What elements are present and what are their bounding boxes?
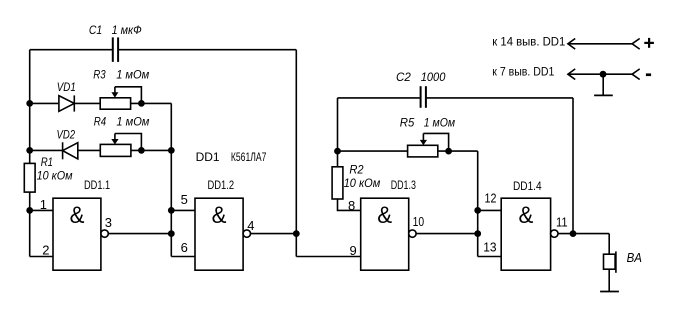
resistor R3 body <box>100 98 130 109</box>
power line minus <box>568 73 632 75</box>
wire VD1 to R3 <box>74 102 99 104</box>
node R3 loop <box>138 100 145 107</box>
svg-text:DD1: DD1 <box>196 150 220 164</box>
wire vertical V5 <box>477 151 479 256</box>
wire left vertical V1 <box>29 50 31 164</box>
svg-text:R3: R3 <box>93 68 106 82</box>
gate DD1.2 box <box>195 198 243 270</box>
wire pin5 <box>171 209 195 211</box>
wire pin9 <box>296 256 360 258</box>
svg-text:1 мкФ: 1 мкФ <box>112 23 143 37</box>
connector plus right <box>632 39 640 50</box>
wire R3 wiper loop <box>115 87 141 104</box>
node V2-R4 <box>168 147 175 154</box>
capacitor C2 <box>421 86 426 108</box>
gate DD1.4 output bubble <box>551 230 558 237</box>
wire C1 top row left <box>30 49 112 51</box>
svg-text:1 мОм: 1 мОм <box>424 115 455 129</box>
wire V6 C2-left vertical <box>337 98 339 167</box>
svg-text:C1: C1 <box>89 23 102 37</box>
svg-text:2: 2 <box>42 242 49 257</box>
node R5 loop <box>445 148 452 155</box>
gate DD1.1 (logic AND-NOT) box <box>53 198 101 270</box>
node V2-out1 <box>168 230 175 237</box>
svg-text:R1: R1 <box>41 155 53 169</box>
arrowhead minus left <box>568 69 575 80</box>
svg-text:C2: C2 <box>396 70 411 84</box>
diode VD2 <box>63 142 78 159</box>
connector minus right <box>632 69 640 80</box>
svg-text:DD1.3: DD1.3 <box>391 180 416 192</box>
svg-text:R5: R5 <box>400 115 415 129</box>
svg-text:1: 1 <box>40 197 47 212</box>
wire R4 right <box>131 149 171 151</box>
svg-text:&: & <box>212 202 227 229</box>
node V1-VD2 <box>26 147 33 154</box>
wire R2 bottom to pin8 <box>338 199 361 210</box>
svg-text:BA: BA <box>627 250 642 265</box>
wire pin13 <box>478 256 502 258</box>
node V4-out11 <box>570 230 577 237</box>
svg-text:R4: R4 <box>94 114 107 128</box>
svg-text:10: 10 <box>413 214 425 229</box>
gate DD1.1 output bubble <box>101 230 108 237</box>
ground BA <box>600 291 619 293</box>
resistor R2 body <box>332 167 343 199</box>
svg-text:к 14 выв. DD1: к 14 выв. DD1 <box>492 35 565 49</box>
wire pin2 <box>30 256 53 258</box>
node minus-ground <box>600 71 607 78</box>
resistor R4 wiper arrow <box>111 134 118 145</box>
svg-text:5: 5 <box>181 192 188 207</box>
svg-text:DD1.1: DD1.1 <box>84 180 110 192</box>
gate DD1.3 output bubble <box>409 230 416 237</box>
wire R1 bottom vertical <box>29 192 31 256</box>
wire R5 row left <box>338 150 408 152</box>
svg-text:9: 9 <box>350 243 357 258</box>
svg-text:6: 6 <box>181 240 188 255</box>
svg-text:DD1.4: DD1.4 <box>513 181 542 193</box>
wire vertical V3 <box>295 50 297 257</box>
label plus <box>644 38 654 48</box>
svg-text:К561ЛА7: К561ЛА7 <box>231 150 267 164</box>
node V2-pin5 <box>168 207 175 214</box>
svg-text:13: 13 <box>483 240 496 255</box>
svg-text:10 кОм: 10 кОм <box>344 176 381 190</box>
arrowhead plus left <box>568 39 575 50</box>
resistor R1 body <box>24 163 35 192</box>
wire VD2 to R4 <box>79 149 101 151</box>
wire VD2 row cathode <box>30 149 63 151</box>
svg-text:12: 12 <box>485 191 497 206</box>
svg-text:10 кОм: 10 кОм <box>37 169 73 183</box>
resistor R5 body <box>408 145 438 157</box>
power line plus <box>568 43 632 45</box>
node R4 loop <box>138 147 145 154</box>
resistor R3 wiper arrow <box>111 87 118 98</box>
svg-text:3: 3 <box>105 215 112 230</box>
svg-text:8: 8 <box>348 198 355 213</box>
svg-text:4: 4 <box>247 218 254 233</box>
svg-text:1 мОм: 1 мОм <box>116 68 149 82</box>
wire BA to ground <box>608 269 610 291</box>
node V5-out10 <box>474 230 481 237</box>
wire minus to ground <box>602 74 604 95</box>
capacitor C1 <box>113 37 118 62</box>
wire pin12 <box>478 209 502 211</box>
svg-text:1 мОм: 1 мОм <box>116 114 149 128</box>
wire R5 wiper loop <box>423 133 448 151</box>
svg-text:к 7 выв. DD1: к 7 выв. DD1 <box>492 64 554 78</box>
node R2 top <box>334 148 341 155</box>
svg-text:VD1: VD1 <box>57 80 76 94</box>
svg-text:R2: R2 <box>349 163 363 177</box>
node V1-VD1 <box>26 100 33 107</box>
wire C1 top row right <box>119 49 296 51</box>
wire BA drop <box>608 234 610 255</box>
resistor R5 wiper arrow <box>420 133 427 145</box>
svg-text:&: & <box>70 202 85 229</box>
gate DD1.4 box <box>501 198 550 270</box>
label minus <box>646 73 651 76</box>
gate DD1.3 box <box>361 198 409 270</box>
resistor R4 body <box>100 144 131 156</box>
wire C2 row right <box>427 97 573 99</box>
svg-text:DD1.2: DD1.2 <box>208 180 235 192</box>
svg-text:11: 11 <box>556 215 568 230</box>
diode VD1 <box>59 95 74 111</box>
svg-text:VD2: VD2 <box>57 128 76 142</box>
node V5-pin12 <box>474 207 481 214</box>
wire C2 row left <box>338 97 420 99</box>
wire pin1 <box>30 209 53 211</box>
ground minus <box>594 94 613 96</box>
wire vertical V2 <box>170 103 172 256</box>
wire vertical V4 feedback <box>572 98 574 234</box>
wire R5 right <box>438 150 478 152</box>
wire R4 wiper loop <box>115 134 141 151</box>
gate DD1.2 output bubble <box>243 230 250 237</box>
wire DD1.2 output <box>251 233 297 235</box>
node V1-pin1 <box>26 207 33 214</box>
node V3-out4 <box>293 230 300 237</box>
svg-text:&: & <box>519 202 534 229</box>
wire VD1 row anode <box>30 102 59 104</box>
wire R3 right <box>131 102 171 104</box>
svg-text:&: & <box>377 202 392 229</box>
wire DD1.4 output <box>558 233 609 235</box>
wire DD1.1 output <box>108 233 171 235</box>
wire DD1.3 output <box>416 233 478 235</box>
svg-text:1000: 1000 <box>421 70 446 84</box>
wire pin6 <box>171 256 195 258</box>
speaker BA <box>604 251 616 272</box>
